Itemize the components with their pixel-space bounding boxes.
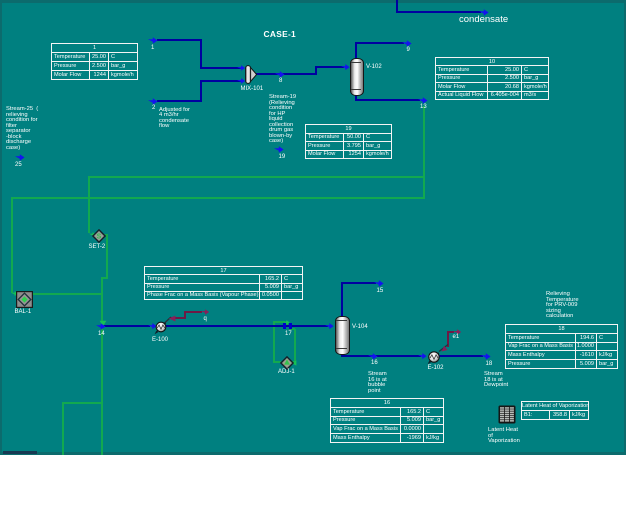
green wire vertical from stream 13 xyxy=(423,106,425,199)
label stream 25 xyxy=(15,162,22,168)
arrow into mixer inlet 2 xyxy=(237,78,246,84)
label V-104 xyxy=(352,324,368,330)
heater E-102 xyxy=(426,349,443,366)
bottom-left dark smudge xyxy=(3,451,37,454)
stream 19 source arrow xyxy=(274,146,284,153)
table stream 17 xyxy=(144,266,303,300)
energy q horizontal lower xyxy=(170,317,186,319)
wire stream 1 to mixer xyxy=(200,67,242,69)
heater E-100 xyxy=(153,319,170,336)
label stream 13 xyxy=(420,104,427,110)
green wire vertical into SET-2 xyxy=(88,176,90,233)
note dew point xyxy=(484,372,508,389)
wire stream 14 to E-100 xyxy=(103,325,150,327)
stream 16 arrow xyxy=(368,353,378,360)
green wire ADJ loop right bottom xyxy=(292,361,296,363)
label stream 19 xyxy=(279,154,286,160)
wire stream 15 horizontal xyxy=(341,282,376,284)
green wire ADJ tick xyxy=(286,321,288,326)
label stream 9 xyxy=(407,47,410,53)
arrow into V-104 xyxy=(325,323,334,329)
table stream 18 xyxy=(505,324,618,369)
label stream 16 xyxy=(371,360,378,366)
green wire SET-2 out right xyxy=(104,234,108,236)
stream 8 arrow xyxy=(275,71,285,78)
energy e1 source arrow xyxy=(453,329,462,335)
wire stream 13 horizontal xyxy=(355,99,420,101)
green wire BAL-1 to junction xyxy=(32,293,102,295)
adjust operation ADJ-1 xyxy=(280,356,294,370)
green wire ADJ loop left bottom xyxy=(273,361,281,363)
green wire bottom vertical xyxy=(62,402,64,455)
vessel V-102 xyxy=(350,58,364,96)
note relieving temperature xyxy=(546,292,579,320)
wire stream 1 riser xyxy=(200,39,202,69)
wire stream 9 riser xyxy=(355,43,357,59)
label energy e1 xyxy=(453,334,460,340)
wire stream 1 horizontal xyxy=(157,39,202,41)
label SET-2 xyxy=(89,244,106,250)
label energy q xyxy=(204,316,207,322)
green wire horizontal upper (SET-2 to stream 13) xyxy=(88,176,425,178)
stream 14 source arrow xyxy=(96,323,106,330)
canvas left edge xyxy=(0,0,2,455)
condensate arrow xyxy=(479,9,489,16)
energy e1 horizontal xyxy=(447,331,454,333)
label stream 15 xyxy=(377,288,384,294)
table stream 10 xyxy=(435,57,549,100)
wire condensate riser xyxy=(396,0,398,13)
energy q diagonal into E-100 xyxy=(163,315,173,325)
stream 1 source arrow xyxy=(148,37,158,44)
label MIX-101 xyxy=(241,86,264,92)
note stream 19 xyxy=(269,95,296,145)
stream 18 arrow xyxy=(481,353,491,360)
label E-100 xyxy=(152,337,168,343)
title CASE-1 xyxy=(264,29,297,39)
canvas top edge xyxy=(0,0,626,3)
wire stream 18 horizontal xyxy=(438,355,483,357)
label stream 2 xyxy=(152,105,155,111)
arrow into E-102 xyxy=(418,353,427,359)
green wire ADJ loop right top xyxy=(289,328,295,330)
label stream 14 xyxy=(98,331,105,337)
stream 9 arrow xyxy=(402,40,412,47)
arrow into mixer inlet 1 xyxy=(237,65,246,71)
wire stream 16 horizontal xyxy=(341,355,421,357)
table stream 19 xyxy=(305,124,392,159)
green wire bottom horizontal xyxy=(62,402,103,404)
energy e1 vertical xyxy=(447,331,449,347)
vessel V-104 xyxy=(335,316,350,355)
green wire ADJ loop left vertical xyxy=(273,321,275,363)
wire stream 8 to V-102 xyxy=(315,66,344,68)
green arrow onto stream 14 xyxy=(99,320,107,327)
label stream 18 xyxy=(486,361,493,367)
stream 25 source arrow xyxy=(15,154,25,161)
label stream 17 xyxy=(285,331,292,337)
note adjusted flow xyxy=(159,108,190,130)
green wire vertical to stream 14 xyxy=(101,295,103,321)
label V-102 xyxy=(366,64,382,70)
canvas bottom edge xyxy=(0,452,626,455)
wire stream 2 to mixer xyxy=(200,80,242,82)
stream 15 arrow xyxy=(374,280,384,287)
green wire vertical below SET-2 xyxy=(106,234,108,279)
table stream 1 xyxy=(51,43,138,80)
table stream 16 xyxy=(330,398,444,443)
note latent heat xyxy=(488,428,520,445)
green wire horizontal lower (to stream 13 riser) xyxy=(11,197,425,199)
wire stream 8 riser xyxy=(315,66,317,75)
wire stream 16 drop xyxy=(341,352,343,357)
set operation SET-2 xyxy=(92,229,106,243)
table latent heat xyxy=(521,401,589,420)
green wire jog horizontal xyxy=(101,277,108,279)
label stream 1 xyxy=(151,45,154,51)
wire stream 13 drop xyxy=(355,94,357,101)
stream 13 arrow xyxy=(418,97,428,104)
junction tick stream 17 left xyxy=(283,323,286,329)
green wire vertical below stream 14 xyxy=(101,328,103,455)
mixer MIX-101 xyxy=(244,64,258,85)
wire stream 2 horizontal xyxy=(157,100,202,102)
energy q source arrow xyxy=(201,309,210,315)
svg-text:S: S xyxy=(97,233,102,240)
note stream 25 xyxy=(6,107,38,151)
spreadsheet icon B1 xyxy=(498,405,516,424)
wire stream 17 horizontal xyxy=(165,325,328,327)
green wire vertical left to BAL-1 xyxy=(11,197,13,293)
green wire jog vertical xyxy=(101,277,103,295)
wire stream 8 from mixer xyxy=(254,73,316,75)
label ADJ-1 xyxy=(278,369,295,375)
energy e1 arrowhead into E-102 xyxy=(441,345,449,352)
arrow into V-102 xyxy=(341,64,350,70)
green arrow ADJ to stream 17 xyxy=(283,320,290,325)
label condensate xyxy=(459,14,508,25)
wire stream 2 riser xyxy=(200,81,202,102)
arrow into E-100 xyxy=(148,323,157,329)
green wire ADJ loop left top xyxy=(273,321,285,323)
stream 2 source arrow xyxy=(148,98,158,105)
junction tick stream 17 right xyxy=(289,323,292,329)
note bubble point xyxy=(368,372,387,394)
balance operation BAL-1 xyxy=(16,291,33,308)
canvas right edge xyxy=(624,0,626,455)
energy e1 diagonal into E-102 xyxy=(438,343,450,353)
label BAL-1 xyxy=(15,309,32,315)
energy q arrowhead into E-100 xyxy=(168,315,176,322)
energy q horizontal upper xyxy=(184,311,202,313)
green arrow into BAL-1 xyxy=(11,291,19,296)
label stream 8 xyxy=(279,78,282,84)
green arrow into ADJ-1 xyxy=(290,360,297,366)
label E-102 xyxy=(428,365,444,371)
wire stream 15 riser xyxy=(341,283,343,317)
energy q riser xyxy=(184,311,186,319)
green wire ADJ loop right vertical xyxy=(294,329,296,363)
wire stream 9 horizontal xyxy=(355,42,404,44)
wire condensate horizontal xyxy=(396,11,481,13)
green arrow into SET-2 xyxy=(89,232,97,237)
